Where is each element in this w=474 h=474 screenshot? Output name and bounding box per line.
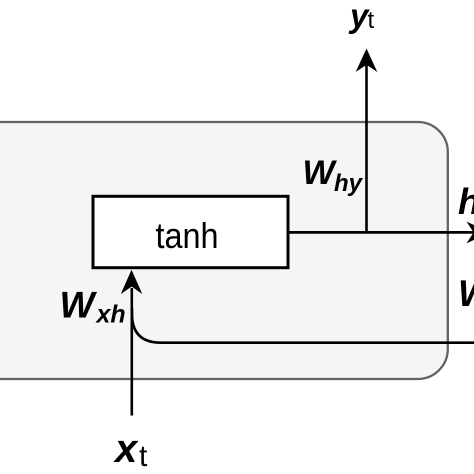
label y_t — [348, 0, 375, 34]
tanh box — [93, 196, 288, 267]
svg-text:W: W — [60, 285, 98, 326]
svg-text:W: W — [303, 154, 338, 192]
svg-text:xh: xh — [95, 301, 126, 329]
arrowhead into tanh box — [121, 270, 143, 294]
wire x_t input (vertical) — [131, 288, 134, 416]
label x_t — [113, 427, 148, 473]
svg-text:tanh: tanh — [155, 216, 218, 256]
svg-text:h: h — [458, 181, 474, 222]
svg-text:t: t — [368, 7, 375, 34]
svg-text:t: t — [139, 440, 148, 473]
label W_xh — [60, 285, 126, 329]
wire y_t output (vertical) — [365, 64, 368, 232]
wire recurrent h_{t-1} feedback (horizontal, curves up into x_t wire) — [132, 308, 474, 343]
svg-text:W: W — [458, 273, 474, 314]
arrowhead y_t — [356, 49, 378, 73]
RNN cell body (rounded rectangle) — [0, 122, 448, 379]
arrowhead h_t (clipped at right edge) — [467, 222, 474, 244]
label W_hy — [303, 154, 364, 197]
svg-text:x: x — [113, 427, 139, 471]
svg-text:hy: hy — [334, 170, 364, 197]
wire h_t output (horizontal) — [288, 231, 474, 234]
